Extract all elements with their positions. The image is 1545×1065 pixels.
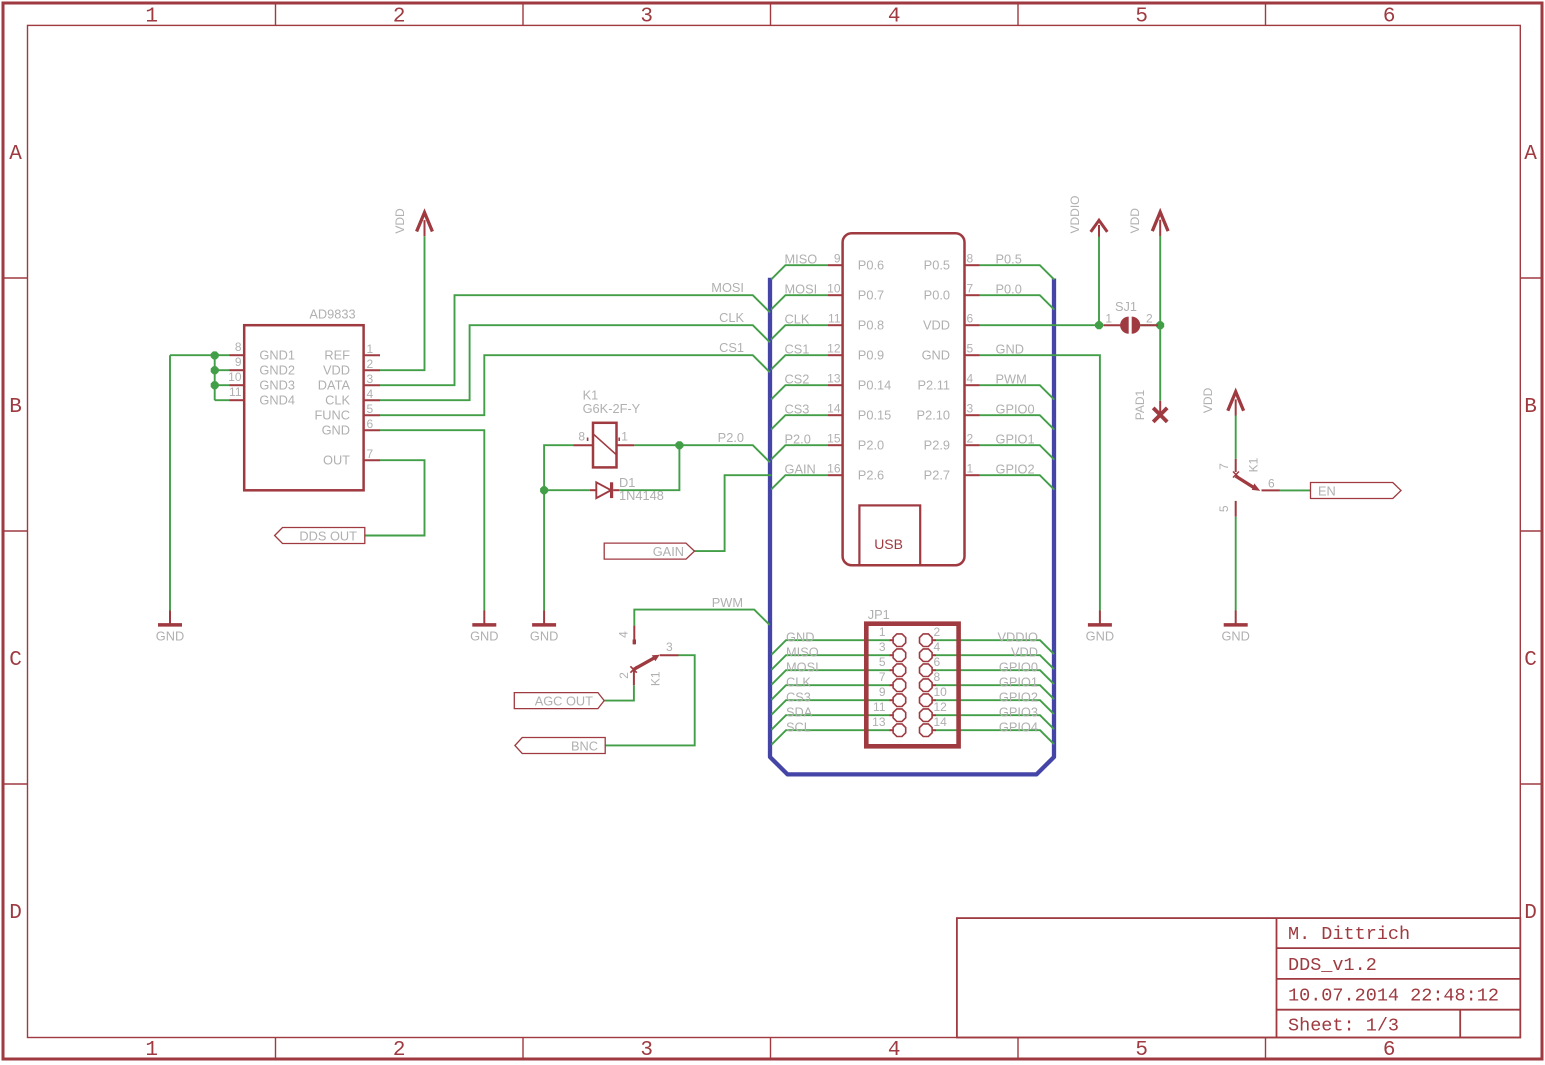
svg-text:5: 5 (1217, 505, 1231, 512)
svg-text:5: 5 (1135, 1039, 1148, 1062)
wire GND from module pin5 to ground (980, 355, 1100, 610)
svg-text:1: 1 (145, 6, 158, 29)
svg-text:MISO: MISO (785, 252, 818, 267)
svg-text:GAIN: GAIN (785, 462, 816, 477)
svg-text:C: C (9, 649, 22, 672)
wire GPIO3 from JP1 pin 12 to bus (936, 715, 1054, 729)
svg-text:2: 2 (393, 1039, 406, 1062)
svg-text:GND: GND (1221, 629, 1249, 644)
SJ1 pin 2 stub (1140, 324, 1158, 326)
pin 4 CLK of U1 (364, 399, 380, 401)
svg-text:GND4: GND4 (259, 393, 295, 408)
svg-text:DDS OUT: DDS OUT (299, 529, 357, 544)
wire VDDIO from JP1 pin 2 to bus (936, 640, 1054, 654)
wire CLK from JP1 pin 7 to bus (772, 685, 890, 700)
wire MOSI from JP1 pin 5 to bus (772, 670, 890, 685)
pin 9 GND2 of U1 (230, 369, 245, 371)
svg-text:A: A (1524, 143, 1537, 166)
wire GPIO4 from JP1 pin 14 to bus (936, 730, 1054, 744)
svg-text:CLK: CLK (785, 312, 810, 327)
svg-text:5: 5 (879, 655, 886, 669)
svg-text:GND: GND (1086, 629, 1114, 644)
svg-text:GND: GND (156, 629, 184, 644)
module pin 1 P2.7 (965, 474, 980, 476)
svg-text:Sheet: 1/3: Sheet: 1/3 (1288, 1016, 1399, 1037)
svg-text:GPIO2: GPIO2 (996, 462, 1035, 477)
svg-text:DDS_v1.2: DDS_v1.2 (1288, 955, 1377, 976)
pin 11 GND4 of U1 (230, 399, 245, 401)
svg-text:P2.7: P2.7 (924, 468, 950, 483)
svg-text:MOSI: MOSI (711, 280, 744, 295)
switch K1 lever (right) (1236, 476, 1255, 488)
wire VDD from module pin6 to SJ1 and VDDIO/VDD rails (980, 236, 1161, 401)
svg-text:6: 6 (1383, 1039, 1396, 1062)
wire BNC from switch K1 pin3 (605, 655, 695, 745)
JP1 pad pin 2 (920, 634, 933, 647)
ground symbol GND at x=544.1 (543, 611, 545, 624)
pin 6 GND of U1 (364, 429, 380, 431)
wire GPIO2 from module pin1 to bus (980, 475, 1055, 490)
switch K1 pin 5 (1235, 501, 1237, 517)
svg-text:P2.0: P2.0 (858, 438, 884, 453)
wire relay coil pin8 to ground, with D1 branch (544, 445, 590, 610)
svg-text:VDD: VDD (1011, 645, 1038, 660)
svg-text:3: 3 (367, 372, 374, 386)
module pin 12 P0.9 (828, 354, 843, 356)
pin 1 REF of U1 (364, 354, 380, 356)
svg-text:DATA: DATA (318, 378, 351, 393)
svg-text:10: 10 (228, 370, 242, 384)
svg-text:5: 5 (967, 342, 974, 356)
wire GND from JP1 pin 1 to bus (772, 640, 890, 655)
wire GPIO2 from JP1 pin 10 to bus (936, 700, 1054, 714)
svg-text:GND: GND (470, 629, 498, 644)
svg-text:MOSI: MOSI (786, 660, 819, 675)
svg-text:P0.8: P0.8 (858, 318, 884, 333)
svg-text:VDDIO: VDDIO (997, 630, 1038, 645)
pin 2 VDD of U1 (364, 369, 380, 371)
wire CS3 from module pin 14 to bus (771, 415, 828, 429)
junction at (1099,325.2) (1095, 321, 1103, 329)
svg-text:7: 7 (967, 282, 974, 296)
svg-text:CLK: CLK (719, 310, 744, 325)
svg-text:12: 12 (827, 342, 841, 356)
svg-text:5: 5 (1135, 6, 1148, 29)
op-amp/IC U1 AD9833 body (244, 325, 363, 490)
module pin 3 P2.10 (965, 414, 980, 416)
svg-text:3: 3 (879, 640, 886, 654)
svg-text:11: 11 (229, 385, 242, 399)
module pin 14 P0.15 (828, 414, 843, 416)
svg-text:1: 1 (621, 430, 628, 444)
svg-text:PWM: PWM (712, 595, 743, 610)
wire CS3 from JP1 pin 9 to bus (772, 700, 890, 715)
module pin 16 P2.6 (828, 474, 843, 476)
svg-text:4: 4 (888, 1039, 901, 1062)
svg-text:2: 2 (617, 672, 631, 679)
PAD1 (test pad, X mark) (1159, 401, 1161, 415)
svg-text:C: C (1524, 649, 1537, 672)
svg-text:P0.0: P0.0 (924, 288, 950, 303)
svg-text:P0.9: P0.9 (858, 348, 884, 363)
wire SCL from JP1 pin 13 to bus (772, 730, 890, 745)
svg-text:P2.6: P2.6 (858, 468, 884, 483)
junction at (1160.2,325.2) (1156, 321, 1164, 329)
relay K1 pin 1 (617, 444, 635, 446)
svg-text:GPIO4: GPIO4 (999, 720, 1038, 735)
net flag EN (1311, 483, 1402, 499)
pin 10 GND3 of U1 (230, 384, 245, 386)
svg-text:FUNC: FUNC (314, 408, 350, 423)
svg-text:MOSI: MOSI (785, 282, 818, 297)
wire MOSI from module pin 10 to bus (771, 295, 828, 309)
svg-text:6: 6 (1383, 6, 1396, 29)
svg-text:GND: GND (530, 629, 558, 644)
switch K1 pin 3 (660, 654, 679, 656)
JP1 pad pin 11 (893, 709, 906, 722)
svg-text:OUT: OUT (323, 453, 350, 468)
wire PWM from switch K1 pin4 to bus (634, 610, 769, 626)
svg-text:GND: GND (996, 342, 1024, 357)
junction at (214.7,355.4) (211, 351, 219, 359)
junction at (679.4,445.2) (675, 441, 683, 449)
svg-text:P2.0: P2.0 (785, 432, 811, 447)
svg-text:VDD: VDD (323, 363, 350, 378)
wire CLK from module pin 11 to bus (771, 325, 828, 339)
wire GAIN from module pin 16 to bus (771, 475, 828, 489)
svg-text:GND1: GND1 (259, 348, 295, 363)
svg-text:16: 16 (827, 462, 841, 476)
ground symbol GND at x=484.3 (483, 611, 485, 624)
svg-text:GPIO0: GPIO0 (999, 660, 1038, 675)
svg-text:GAIN: GAIN (653, 544, 684, 559)
wire SDA from JP1 pin 11 to bus (772, 715, 890, 730)
svg-text:2: 2 (1146, 312, 1153, 326)
JP1 pad pin 6 (920, 664, 933, 677)
pin 3 DATA of U1 (364, 384, 380, 386)
svg-text:8: 8 (578, 430, 585, 444)
svg-text:SCL: SCL (786, 720, 811, 735)
diode D1 1N4148 (596, 482, 611, 498)
module pin 4 P2.11 (965, 384, 980, 386)
svg-text:3: 3 (967, 402, 974, 416)
JP1 pad pin 12 (920, 709, 933, 722)
switch K1 pin 4 (633, 626, 635, 645)
connector JP1 body (866, 624, 958, 747)
svg-text:K1: K1 (648, 671, 662, 686)
module pin 13 P0.14 (828, 384, 843, 386)
svg-text:14: 14 (934, 715, 948, 729)
svg-text:4: 4 (888, 6, 901, 29)
svg-text:EN: EN (1318, 484, 1336, 499)
svg-text:11: 11 (828, 312, 841, 326)
wire MOSI from AD9833 DATA to bus (380, 295, 770, 385)
bus (board outline bus, blue) (770, 278, 1054, 775)
svg-text:K1: K1 (1247, 457, 1261, 472)
svg-text:2: 2 (967, 432, 974, 446)
svg-text:VDD: VDD (1128, 208, 1142, 234)
svg-text:6: 6 (367, 417, 374, 431)
module pin 10 P0.7 (828, 294, 843, 296)
JP1 pad pin 9 (893, 694, 906, 707)
svg-text:11: 11 (873, 700, 886, 714)
svg-text:BNC: BNC (571, 739, 598, 754)
switch K1 pin 6 (1262, 489, 1280, 491)
net flag BNC (515, 738, 605, 754)
power symbol VDDIO (1091, 220, 1108, 232)
svg-text:6: 6 (967, 312, 974, 326)
solder jumper SJ1 pad 1 (1120, 317, 1129, 334)
power symbol VDD (at SJ1) (1152, 212, 1168, 231)
svg-text:G6K-2F-Y: G6K-2F-Y (583, 401, 641, 416)
switch K1 pin 7 (1235, 459, 1237, 472)
svg-text:3: 3 (640, 6, 653, 29)
svg-text:10: 10 (827, 282, 841, 296)
module pin 7 P0.0 (965, 294, 980, 296)
svg-text:PWM: PWM (996, 372, 1027, 387)
svg-text:8: 8 (967, 252, 974, 266)
svg-text:4: 4 (367, 387, 374, 401)
wire GPIO1 from module pin2 to bus (980, 445, 1055, 460)
svg-text:B: B (9, 396, 22, 419)
svg-text:P2.9: P2.9 (924, 438, 950, 453)
wire EN from switch K1 pin6 (1280, 489, 1311, 491)
svg-text:3: 3 (640, 1039, 653, 1062)
svg-text:AGC OUT: AGC OUT (535, 694, 593, 709)
svg-text:1: 1 (879, 625, 886, 639)
svg-text:P2.0: P2.0 (718, 430, 744, 445)
svg-text:VDD: VDD (1201, 387, 1215, 413)
svg-text:P0.7: P0.7 (858, 288, 884, 303)
wire P0.5 from module pin8 to bus (980, 265, 1055, 280)
wire CS1 from AD9833 FUNC to bus (380, 355, 770, 415)
wire P2.0 from relay coil pin1 to bus (634, 445, 770, 462)
module pin 8 P0.5 (965, 264, 980, 266)
svg-text:8: 8 (235, 340, 242, 354)
svg-text:PAD1: PAD1 (1133, 389, 1147, 420)
svg-text:15: 15 (827, 432, 841, 446)
power symbol VDD (at switch K1) (1228, 392, 1244, 411)
svg-text:VDD: VDD (923, 318, 950, 333)
junction at (214.7,370.3) (211, 366, 219, 374)
svg-text:9: 9 (235, 355, 242, 369)
svg-text:VDDIO: VDDIO (1068, 195, 1082, 233)
solder jumper SJ1 pad 2 (1132, 317, 1141, 334)
svg-text:P2.11: P2.11 (918, 378, 951, 393)
wire MISO from module pin 9 to bus (771, 265, 828, 279)
svg-text:12: 12 (934, 700, 948, 714)
wire switch K1 pin5 to ground (1235, 517, 1237, 611)
svg-text:SDA: SDA (786, 705, 813, 720)
svg-text:SJ1: SJ1 (1115, 299, 1137, 314)
svg-text:CLK: CLK (325, 393, 350, 408)
svg-text:7: 7 (367, 447, 374, 461)
svg-text:9: 9 (879, 685, 886, 699)
svg-text:1N4148: 1N4148 (619, 488, 664, 503)
wire P0.0 from module pin7 to bus (980, 295, 1055, 310)
svg-text:CLK: CLK (786, 675, 811, 690)
svg-text:GPIO3: GPIO3 (999, 705, 1038, 720)
switch K1 lever (bottom) (634, 657, 656, 669)
svg-text:VDD: VDD (393, 208, 407, 234)
svg-text:GND3: GND3 (259, 378, 295, 393)
pin 8 GND1 of U1 (230, 354, 245, 356)
svg-text:3: 3 (666, 640, 673, 654)
module pin 9 P0.6 (828, 264, 843, 266)
net flag GAIN (604, 543, 694, 559)
net flag DDS OUT (275, 528, 365, 544)
svg-text:D: D (9, 902, 22, 925)
SJ1 pin 1 stub (1104, 324, 1121, 326)
svg-text:A: A (9, 143, 22, 166)
svg-text:GPIO0: GPIO0 (996, 402, 1035, 417)
svg-text:GND: GND (786, 630, 814, 645)
wire GND net from AD9833 GND1-4 pins to ground (170, 355, 230, 610)
svg-text:GND2: GND2 (259, 363, 295, 378)
svg-text:P0.6: P0.6 (858, 258, 884, 273)
JP1 pad pin 14 (920, 724, 933, 737)
relay K1 coil body (593, 423, 617, 468)
svg-text:P0.0: P0.0 (996, 282, 1022, 297)
svg-text:6: 6 (1268, 477, 1275, 491)
svg-text:CS3: CS3 (786, 690, 811, 705)
svg-text:USB: USB (874, 536, 903, 552)
svg-text:M. Dittrich: M. Dittrich (1288, 924, 1410, 945)
svg-text:1: 1 (967, 462, 974, 476)
JP1 pad pin 7 (893, 679, 906, 692)
JP1 pad pin 10 (920, 694, 933, 707)
svg-text:MISO: MISO (786, 645, 819, 660)
module USB connector box (859, 505, 920, 565)
svg-text:1: 1 (367, 342, 374, 356)
svg-text:5: 5 (367, 402, 374, 416)
wire MISO from JP1 pin 3 to bus (772, 655, 890, 670)
svg-text:CS3: CS3 (785, 402, 810, 417)
module pin 6 VDD (965, 324, 980, 326)
JP1 pad pin 13 (893, 724, 906, 737)
svg-text:2: 2 (934, 625, 941, 639)
module pin 5 GND (965, 354, 980, 356)
svg-text:1: 1 (1105, 312, 1112, 326)
svg-text:2: 2 (367, 357, 374, 371)
svg-text:2: 2 (393, 6, 406, 29)
JP1 pad pin 8 (920, 679, 933, 692)
svg-text:14: 14 (827, 402, 841, 416)
ground symbol GND at x=1235.7 (1235, 611, 1237, 624)
relay K1 pin 8 (573, 444, 593, 446)
svg-text:P0.14: P0.14 (858, 378, 891, 393)
svg-text:B: B (1524, 396, 1537, 419)
svg-text:10.07.2014 22:48:12: 10.07.2014 22:48:12 (1288, 986, 1499, 1007)
net flag AGC OUT (514, 693, 604, 709)
wire DDS OUT from AD9833 OUT pin7 (365, 460, 425, 535)
svg-text:REF: REF (324, 348, 350, 363)
pin 7 OUT of U1 (364, 459, 380, 461)
svg-text:7: 7 (879, 670, 886, 684)
diode D1 pin stubs (590, 489, 596, 491)
svg-text:GPIO2: GPIO2 (999, 690, 1038, 705)
wire VDD from JP1 pin 4 to bus (936, 655, 1054, 669)
wire P2.0 from module pin 15 to bus (771, 445, 828, 459)
svg-text:4: 4 (967, 372, 974, 386)
svg-text:CS2: CS2 (785, 372, 810, 387)
svg-text:4: 4 (617, 631, 631, 638)
wire AGC OUT to switch K1 pin2 (604, 685, 634, 700)
svg-text:4: 4 (934, 640, 941, 654)
svg-text:8: 8 (934, 670, 941, 684)
svg-text:AD9833: AD9833 (309, 307, 355, 322)
svg-text:7: 7 (1217, 463, 1231, 470)
pin 5 FUNC of U1 (364, 414, 380, 416)
module pin 2 P2.9 (965, 444, 980, 446)
svg-text:CS1: CS1 (785, 342, 810, 357)
wire CS1 from module pin 12 to bus (771, 355, 828, 369)
junction at (544.1,490.2) (540, 486, 548, 494)
svg-text:CS1: CS1 (719, 340, 744, 355)
junction at (214.7,385.2) (211, 381, 219, 389)
JP1 pad pin 1 (893, 634, 906, 647)
svg-text:GND: GND (922, 348, 950, 363)
svg-text:1: 1 (145, 1039, 158, 1062)
svg-text:P0.5: P0.5 (924, 258, 950, 273)
JP1 pad pin 5 (893, 664, 906, 677)
ground symbol GND at x=170 (169, 611, 171, 624)
svg-text:13: 13 (827, 372, 841, 386)
svg-text:GPIO1: GPIO1 (999, 675, 1038, 690)
svg-text:13: 13 (872, 715, 886, 729)
wire CLK from AD9833 CLK to bus (380, 325, 770, 400)
svg-text:GPIO1: GPIO1 (996, 432, 1035, 447)
wire D1 cathode to P2.0 node (619, 445, 679, 490)
wire CS2 from module pin 13 to bus (771, 385, 828, 399)
wire VDD to AD9833 pin2 (380, 236, 425, 370)
svg-text:JP1: JP1 (868, 607, 890, 622)
ground symbol GND at x=1099.9 (1099, 611, 1101, 624)
wire VDD to switch K1 pin7 (1235, 415, 1237, 459)
wire AD9833 GND pin6 to ground (380, 430, 484, 610)
JP1 pad pin 4 (920, 649, 933, 662)
svg-text:6: 6 (934, 655, 941, 669)
module pin 15 P2.0 (828, 444, 843, 446)
switch K1 pin 2 (633, 670, 635, 685)
svg-text:10: 10 (934, 685, 948, 699)
title block (957, 918, 1520, 1037)
svg-text:D: D (1524, 902, 1537, 925)
JP1 pad pin 3 (893, 649, 906, 662)
module U2 (LaunchPad) body (843, 233, 965, 565)
wire PWM from module pin4 to bus (980, 385, 1055, 400)
wire GPIO0 from JP1 pin 6 to bus (936, 670, 1054, 684)
power symbol VDD (over AD9833) (417, 213, 433, 232)
wire GAIN from flag to bus (695, 475, 772, 551)
svg-text:P0.5: P0.5 (996, 252, 1022, 267)
svg-text:GND: GND (322, 423, 350, 438)
svg-text:9: 9 (834, 252, 841, 266)
module pin 11 P0.8 (828, 324, 843, 326)
svg-text:P0.15: P0.15 (858, 408, 891, 423)
wire GPIO1 from JP1 pin 8 to bus (936, 685, 1054, 699)
wire GPIO0 from module pin3 to bus (980, 415, 1055, 430)
svg-text:P2.10: P2.10 (917, 408, 950, 423)
